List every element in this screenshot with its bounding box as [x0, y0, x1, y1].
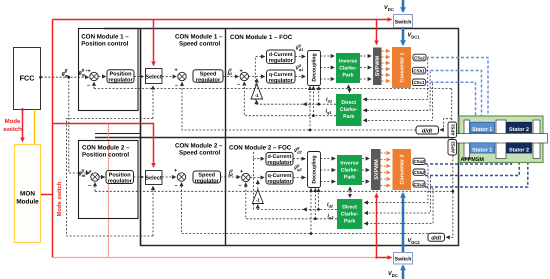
wire d-feedback into d-regulator — [255, 57, 264, 105]
svg-text:CSb2: CSb2 — [413, 170, 425, 175]
wire S3 to q-regulator — [249, 76, 265, 78]
svg-text:CON Module 1 –: CON Module 1 – — [175, 34, 223, 41]
SVPWM1 block — [373, 48, 382, 86]
PWM wires SVPWM1 to converter1 — [382, 50, 390, 52]
svg-text:Clarke-: Clarke- — [339, 66, 357, 72]
wire R3 to Select2 — [134, 176, 144, 178]
svg-text:Stator 1: Stator 1 — [472, 148, 492, 154]
svg-text:−: − — [239, 183, 242, 189]
svg-text:CSa2: CSa2 — [414, 159, 426, 164]
current sensor CSa1 — [413, 54, 426, 61]
svg-text:Speed: Speed — [200, 71, 217, 78]
svg-text:APS1: APS1 — [450, 123, 455, 135]
svg-text:Speed control: Speed control — [179, 150, 221, 157]
summer S5 speed — [174, 168, 186, 190]
current feedback c1 — [363, 83, 432, 120]
mode switch arrow FCC to MON (red) — [22, 109, 24, 142]
SVPWM2 block — [371, 149, 381, 190]
i_q2 feedback wire — [246, 183, 337, 219]
svg-text:Speed control: Speed control — [179, 41, 221, 48]
d-current regulator — [267, 50, 296, 63]
svg-text:Decoupling: Decoupling — [311, 53, 317, 81]
decoupling block U2 — [308, 152, 321, 188]
svg-text:Position control: Position control — [81, 41, 128, 48]
position regulator R3 — [106, 171, 134, 184]
i_d2 feedback wire — [256, 208, 338, 210]
svg-text:Speed: Speed — [198, 172, 215, 179]
q-current regulator 2 — [266, 172, 293, 185]
svg-text:VDC1: VDC1 — [408, 33, 421, 40]
current feedback b2 — [364, 177, 430, 214]
bottom switch block — [402, 266, 405, 279]
current sensor CSa2 — [413, 158, 425, 164]
wire d-reg2 to decoupling2 — [293, 158, 305, 160]
svg-text:VDC2: VDC2 — [408, 238, 421, 245]
CON Module 2 position control box — [79, 141, 139, 219]
svg-text:+: + — [89, 169, 92, 175]
svg-text:regulator: regulator — [108, 77, 133, 84]
wires decoupling2 to ICP2 — [320, 158, 335, 160]
svg-text:Switch: Switch — [395, 257, 412, 263]
svg-text:d/dt: d/dt — [431, 236, 441, 242]
inverse clarke-park block 2 — [337, 155, 362, 185]
q-current regulator — [267, 70, 296, 83]
decoupling block U1 — [308, 51, 321, 86]
PWM wires SVPWM2 to converter2 — [381, 152, 391, 154]
phase a2 wire to stator2 — [425, 155, 511, 164]
phase a1 wire to stator1 — [426, 58, 488, 120]
svg-text:Decoupling: Decoupling — [311, 155, 317, 183]
CON module 2 dashed group frame — [67, 119, 154, 237]
svg-text:CON Module 2 –: CON Module 2 – — [82, 145, 130, 152]
outer system frame — [104, 29, 459, 246]
AFPMSM machine body — [459, 116, 543, 163]
svg-text:−: − — [237, 82, 240, 88]
svg-text:Select: Select — [145, 175, 162, 182]
svg-text:CON Module 1 – FOC: CON Module 1 – FOC — [230, 34, 293, 41]
wire q-reg2 to decoupling2 — [293, 177, 305, 179]
current sensor CSb2 — [413, 169, 425, 175]
svg-text:regulator: regulator — [196, 77, 221, 84]
d/dt block M2 — [428, 233, 445, 241]
summer S6 q-axis — [239, 173, 251, 189]
wire S6 to q-regulator2 — [250, 177, 264, 179]
svg-text:Position: Position — [109, 171, 132, 178]
converter 2 — [393, 149, 412, 190]
wires ICP2 to SVPWM2 — [362, 158, 369, 160]
phase b1 wire to stator1 — [426, 71, 482, 120]
svg-text:+: + — [174, 168, 177, 174]
current sensor CSc2 — [413, 181, 425, 187]
summer S4 position — [88, 169, 99, 190]
svg-text:−: − — [88, 184, 91, 190]
svg-text:SVPWM: SVPWM — [375, 56, 381, 77]
gain -1 triangle 2 — [252, 190, 263, 204]
pink monitor highlight — [108, 124, 110, 258]
frame divider vertical 1 — [140, 29, 142, 246]
wire d-reg to decoupling — [295, 56, 305, 58]
wire S4 to R3 — [99, 176, 105, 178]
svg-text:regulator: regulator — [269, 57, 294, 64]
speed regulator R2 — [193, 70, 223, 83]
stator 2 top — [507, 122, 532, 132]
svg-text:-1: -1 — [256, 198, 260, 203]
svg-text:Position control: Position control — [82, 152, 129, 159]
stator 2 bottom — [507, 143, 532, 153]
d/dt block M1 — [416, 126, 439, 134]
i_q1 feedback wire — [244, 82, 336, 116]
CON Module 1 position control box — [79, 29, 139, 111]
wire R2 to S3, i*q1 — [223, 76, 239, 78]
bearing plate right — [533, 120, 540, 159]
svg-text:Clarke-: Clarke- — [341, 212, 359, 218]
wire q-reg to decoupling — [295, 76, 305, 78]
current feedback b1 — [363, 72, 430, 111]
V_DC supply arrow top — [402, 0, 405, 12]
svg-text:regulator: regulator — [108, 177, 133, 184]
svg-text:regulator: regulator — [195, 178, 220, 185]
svg-text:+: + — [175, 68, 178, 74]
phase c1 wire to stator1 — [426, 82, 476, 120]
svg-text:CON Module 1 –: CON Module 1 – — [81, 34, 129, 41]
svg-text:-1: -1 — [255, 93, 259, 98]
frame stub left — [95, 133, 140, 135]
wire theta ref down to module2 — [69, 77, 90, 173]
wire S1 to R1 — [98, 76, 106, 78]
wires ICP to SVPWM — [360, 55, 371, 57]
wire SEL1 to S2 — [162, 76, 176, 78]
svg-text:VDC: VDC — [384, 5, 394, 12]
svg-text:d/dt: d/dt — [422, 127, 433, 134]
i_d1 feedback wire — [255, 103, 336, 105]
svg-text:CON Module 2 –: CON Module 2 – — [175, 143, 223, 150]
switch SW2 — [394, 253, 413, 265]
V_DC1 wire — [402, 28, 405, 45]
theta ref wire FCC out — [41, 76, 89, 78]
bearing plate left — [464, 120, 470, 159]
svg-text:Park: Park — [344, 219, 355, 225]
svg-text:Park: Park — [344, 175, 355, 181]
svg-text:Mode: Mode — [5, 118, 21, 125]
FCC box — [14, 48, 41, 110]
wire APS2 down to d/dt2 — [446, 156, 453, 238]
svg-text:SVPWM: SVPWM — [374, 159, 380, 180]
shaft — [453, 134, 548, 143]
d-current regulator 2 — [266, 153, 293, 166]
rotor disc center — [496, 120, 506, 159]
wires decoupling to inverse clarke-park — [320, 55, 334, 57]
frame divider horizontal — [95, 137, 459, 139]
svg-text:+: + — [88, 69, 91, 75]
svg-text:regulator: regulator — [267, 178, 292, 185]
summer S2 speed — [175, 68, 187, 90]
svg-text:Inverse: Inverse — [340, 161, 358, 167]
svg-text:regulator: regulator — [269, 77, 294, 84]
svg-text:APS2: APS2 — [450, 141, 455, 153]
summer S3 q-axis — [237, 72, 249, 88]
theta1 feedback line — [94, 88, 452, 90]
svg-text:CON Module 2 – FOC: CON Module 2 – FOC — [229, 145, 292, 152]
svg-text:Mode switch: Mode switch — [56, 181, 63, 216]
select block SEL2 — [146, 171, 163, 185]
svg-text:Position: Position — [109, 71, 132, 78]
omega1 feedback line — [182, 82, 416, 130]
speed regulator R4 — [193, 171, 221, 183]
MON module box — [15, 145, 41, 243]
current feedback a2 — [364, 165, 428, 203]
current sensor CSb1 — [413, 67, 426, 74]
svg-text:AFPMSM: AFPMSM — [461, 157, 485, 163]
red mode-switch net — [52, 20, 54, 258]
select block SEL1 — [146, 69, 163, 84]
summer S1 position — [87, 69, 98, 90]
svg-text:−: − — [87, 83, 90, 89]
V_DC2 wire — [402, 194, 405, 253]
current feedback c2 — [364, 188, 433, 224]
omega2 feedback line — [182, 183, 429, 234]
current feedback a1 — [363, 59, 428, 100]
svg-text:Switch: Switch — [395, 20, 412, 26]
direct clarke-park block 2 — [337, 199, 362, 229]
svg-text:CSa1: CSa1 — [414, 55, 426, 60]
svg-text:Park: Park — [343, 114, 354, 120]
theta2 feedback line — [95, 190, 453, 192]
phase b2 wire to stator2 — [425, 155, 519, 176]
frame divider vertical 2 — [225, 29, 227, 246]
svg-text:Direct: Direct — [341, 100, 356, 106]
wire d-feedback into d-regulator2 — [253, 151, 255, 209]
svg-text:MON: MON — [20, 191, 35, 198]
gain -1 triangle — [251, 84, 263, 99]
svg-text:VDC: VDC — [388, 271, 398, 278]
svg-text:CSc2: CSc2 — [414, 182, 426, 187]
wire R4 to S6, i*q2 — [221, 176, 241, 178]
svg-text:Clarke-: Clarke- — [340, 107, 358, 113]
wire APS1 to d/dt — [451, 89, 453, 122]
inverse clarke-park block — [336, 53, 360, 83]
svg-text:CSb1: CSb1 — [413, 68, 425, 73]
svg-text:regulator: regulator — [267, 159, 292, 166]
svg-text:igq1: igq1 — [228, 67, 233, 76]
converter 1 — [392, 47, 411, 88]
svg-text:Clarke-: Clarke- — [341, 168, 359, 174]
svg-text:Converter 1: Converter 1 — [400, 53, 406, 83]
decoupling2 feedback taps — [318, 188, 320, 209]
svg-text:Direct: Direct — [342, 205, 357, 211]
svg-text:CSc1: CSc1 — [414, 80, 426, 85]
decoupling feedback taps — [318, 86, 320, 104]
svg-text:switch: switch — [3, 126, 22, 133]
svg-text:Park: Park — [342, 73, 353, 79]
position regulator R1 — [107, 70, 134, 83]
position sensor APS2 — [448, 140, 457, 156]
svg-text:−: − — [175, 184, 178, 190]
position sensor APS1 — [448, 122, 457, 138]
svg-text:Select: Select — [145, 74, 162, 81]
svg-text:Stator 2: Stator 2 — [509, 127, 529, 133]
switch SW1 — [394, 15, 413, 28]
current sensor CSc1 — [413, 79, 426, 86]
svg-text:Converter 2: Converter 2 — [400, 155, 406, 185]
phase c2 wire to stator2 — [425, 155, 528, 187]
svg-text:Module: Module — [16, 199, 39, 206]
wire FCC to MON (yellow) — [34, 110, 36, 145]
svg-text:FCC: FCC — [20, 74, 35, 83]
wire R1 to Select1 — [134, 76, 144, 78]
svg-text:Stator 1: Stator 1 — [472, 127, 492, 133]
direct clarke-park block — [336, 94, 362, 126]
svg-text:Stator 2: Stator 2 — [509, 148, 529, 154]
stator 1 bottom — [470, 143, 495, 153]
stator 1 top — [470, 122, 495, 132]
wire SEL2 to S5 — [162, 176, 176, 178]
svg-text:Inverse: Inverse — [339, 59, 357, 65]
